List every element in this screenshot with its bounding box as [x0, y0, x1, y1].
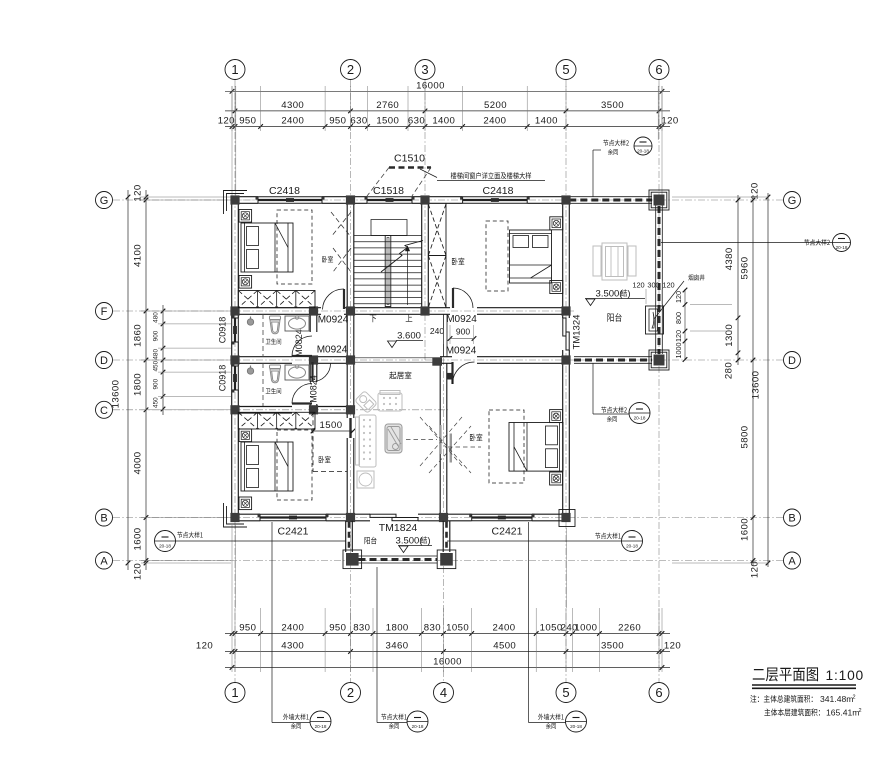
svg-text:120: 120 [662, 281, 674, 290]
callout detail1 left [155, 531, 347, 552]
vent shaft [428, 203, 446, 307]
door M0924 bedroom NE [453, 288, 473, 308]
svg-text:6: 6 [655, 685, 662, 700]
svg-text:4500: 4500 [493, 641, 516, 652]
wall grid4 [440, 363, 447, 514]
svg-text:20-18: 20-18 [836, 245, 848, 250]
svg-text:900: 900 [153, 330, 160, 341]
balcony east railing [656, 203, 663, 354]
grid bubble A left [96, 552, 113, 569]
svg-text:): ) [627, 289, 630, 300]
label M0824 a [294, 329, 304, 357]
svg-text:800: 800 [674, 312, 683, 324]
grid bubble 4 bottom [434, 683, 454, 703]
label M0924 c [446, 314, 477, 325]
label balcony S [365, 537, 377, 544]
label bedroom NW [322, 256, 333, 263]
label C2418 left [269, 185, 300, 197]
area notes [750, 694, 861, 718]
label M0924 b [317, 345, 348, 356]
grid bubble F left [96, 303, 113, 320]
svg-text:F: F [101, 306, 108, 318]
grid bubble G left [96, 192, 113, 209]
svg-text:4100: 4100 [133, 244, 144, 267]
label 900 dim [456, 327, 470, 337]
svg-text:20-18: 20-18 [570, 724, 582, 729]
svg-text:M0824: M0824 [294, 329, 304, 357]
flue shaft [646, 306, 664, 334]
window C0918 lower [231, 364, 238, 393]
svg-text:480: 480 [153, 312, 160, 323]
svg-text:1800: 1800 [386, 623, 409, 634]
svg-text:1: 1 [231, 62, 238, 77]
bed SE [509, 422, 563, 471]
svg-text:120: 120 [661, 116, 678, 127]
svg-text:830: 830 [424, 623, 441, 634]
dashed ceiling cross SE [406, 417, 481, 473]
side table NE b [550, 281, 563, 294]
stair label up [406, 314, 413, 322]
svg-text:120: 120 [133, 563, 144, 580]
svg-text:5200: 5200 [484, 100, 507, 111]
svg-text:341.48m: 341.48m [820, 694, 853, 704]
wall grid2 [347, 203, 354, 514]
svg-text:D: D [788, 355, 796, 367]
grid line 4 [443, 358, 445, 682]
svg-text:1050: 1050 [540, 623, 563, 634]
closet hatch NW [238, 291, 315, 308]
window C2418 right [460, 196, 530, 203]
svg-text:20-18: 20-18 [626, 544, 638, 549]
side table SE a [550, 410, 563, 423]
wall grid1 [232, 197, 239, 521]
closet SW dashed [311, 412, 356, 471]
svg-text:C1510: C1510 [394, 153, 425, 165]
grid bubble D right [784, 352, 801, 369]
side table NW a [239, 210, 252, 223]
svg-text:20-18: 20-18 [637, 149, 649, 154]
svg-text:C2418: C2418 [269, 185, 300, 197]
svg-text:M0924: M0924 [446, 346, 477, 357]
wardrobe dashed NW [277, 210, 312, 284]
svg-text:950: 950 [329, 623, 346, 634]
side table SE b [550, 472, 563, 485]
svg-text:4300: 4300 [281, 641, 304, 652]
svg-text:950: 950 [239, 116, 256, 127]
svg-text:3500: 3500 [601, 100, 624, 111]
svg-text:240: 240 [430, 326, 444, 336]
svg-text:): ) [427, 536, 430, 547]
wall D bedroom [440, 357, 563, 364]
callout wall detail bottom left [272, 522, 331, 732]
door M0824 bath upper [292, 336, 312, 356]
svg-text:C2421: C2421 [278, 526, 309, 538]
bathroom east wall [310, 314, 317, 406]
label bedroom SE [470, 434, 482, 442]
grid line 6 [658, 80, 660, 682]
dashed ceiling cross NW [331, 212, 351, 272]
svg-text:16000: 16000 [416, 80, 445, 91]
label C0918 upper [218, 317, 228, 344]
grid bubble G right [784, 192, 801, 209]
svg-text:A: A [100, 555, 108, 567]
dim 900 line [444, 325, 477, 344]
bed NE [510, 230, 552, 283]
svg-text:3: 3 [421, 62, 428, 77]
grid line C [113, 409, 448, 411]
wall grid3 [422, 203, 429, 307]
svg-text:2: 2 [859, 708, 862, 714]
label M0924 a [318, 315, 349, 326]
svg-text:C0918: C0918 [218, 317, 228, 344]
grid line 3 [424, 80, 426, 362]
stairs [354, 220, 423, 307]
svg-text:1300: 1300 [724, 324, 735, 347]
grid4 partition F-D [444, 314, 447, 356]
wall B [232, 514, 570, 521]
svg-text:TM1324: TM1324 [572, 315, 583, 350]
grid line 1 [234, 80, 236, 682]
svg-text:C: C [100, 405, 108, 417]
bedroom SW door leaf [349, 418, 351, 438]
svg-text:2400: 2400 [493, 623, 516, 634]
column D4 [432, 357, 442, 365]
window C2421 right [469, 514, 534, 521]
corner wrap NW [224, 191, 248, 215]
svg-text:B: B [788, 512, 795, 524]
grid bubble 3 top [415, 60, 435, 80]
svg-text:3500: 3500 [601, 641, 624, 652]
wardrobe dashed SW [277, 430, 312, 500]
balcony table set [593, 243, 636, 280]
svg-text:D: D [100, 355, 108, 367]
grid bubble B left [96, 509, 113, 526]
callout wall detail bottom right [529, 522, 587, 732]
wall G [232, 197, 570, 204]
svg-text:120: 120 [674, 291, 683, 303]
label flue [688, 274, 704, 280]
svg-text:6: 6 [655, 62, 662, 77]
svg-text:120: 120 [196, 641, 213, 652]
svg-text:120: 120 [218, 116, 235, 127]
label living room [389, 371, 411, 379]
svg-text:5: 5 [562, 62, 569, 77]
svg-text:900: 900 [456, 327, 470, 337]
svg-text:C2421: C2421 [492, 526, 523, 538]
svg-text:2400: 2400 [281, 116, 304, 127]
label bathroom lower [266, 388, 281, 394]
svg-text:4000: 4000 [133, 452, 144, 475]
grid line A [113, 560, 783, 562]
label M0924 d [446, 346, 477, 357]
svg-text:5960: 5960 [740, 257, 751, 280]
stair south wall [354, 308, 422, 315]
svg-text:M0824: M0824 [309, 375, 319, 403]
svg-text:13600: 13600 [751, 371, 762, 400]
upper window C1510 note [367, 153, 437, 197]
grid line G [113, 199, 783, 201]
svg-text:2: 2 [347, 62, 354, 77]
svg-text:M0924: M0924 [318, 315, 349, 326]
svg-text:M0924: M0924 [317, 345, 348, 356]
hall-living edge [354, 358, 440, 362]
svg-text:2400: 2400 [281, 623, 304, 634]
svg-text:1400: 1400 [535, 116, 558, 127]
svg-text:C2418: C2418 [483, 185, 514, 197]
grid line 2 [350, 80, 352, 682]
svg-text:120: 120 [664, 641, 681, 652]
flue dims horizontal [632, 281, 674, 305]
svg-text:165.41m: 165.41m [826, 708, 859, 718]
svg-text:C0918: C0918 [218, 365, 228, 392]
svg-text:1800: 1800 [133, 373, 144, 396]
label C1518 [373, 185, 404, 197]
bathroom lower fixtures [247, 363, 309, 406]
svg-text:1860: 1860 [133, 324, 144, 347]
bottom balcony [343, 521, 456, 569]
wall D bath [238, 357, 347, 364]
side table SW a [239, 429, 252, 442]
bed SW [241, 442, 293, 491]
grid bubble 6 bottom [649, 683, 669, 703]
svg-text:120: 120 [674, 330, 683, 342]
level 3.500 balcony S [396, 536, 432, 553]
svg-text:2: 2 [347, 685, 354, 700]
svg-text:630: 630 [350, 116, 367, 127]
grid bubble 2 top [341, 60, 361, 80]
svg-text:630: 630 [408, 116, 425, 127]
grid bubble 5 top [556, 60, 576, 80]
svg-text:120: 120 [133, 184, 144, 201]
callout detail2 far right [661, 234, 851, 252]
window C0918 upper [231, 316, 238, 345]
flue dims vertical [674, 288, 687, 362]
bottom dimension lines [196, 525, 681, 672]
label C2418 right [483, 185, 514, 197]
svg-text:1500: 1500 [376, 116, 399, 127]
svg-text:950: 950 [239, 623, 256, 634]
grid bubble 2 bottom [341, 683, 361, 703]
svg-text:280: 280 [724, 362, 735, 379]
door TM1824 [370, 514, 418, 521]
side table NE a [550, 217, 563, 230]
svg-text:16000: 16000 [433, 657, 462, 668]
svg-text:5: 5 [562, 685, 569, 700]
svg-text:C1518: C1518 [373, 185, 404, 197]
svg-text:1600: 1600 [133, 528, 144, 551]
callout detail1 right [447, 531, 643, 552]
label 240 dim [430, 326, 444, 336]
svg-text:3.500(: 3.500( [396, 536, 424, 547]
svg-text:3.600: 3.600 [397, 331, 421, 342]
label bedroom NE [452, 258, 464, 266]
svg-text:480: 480 [153, 349, 160, 360]
label TM1324 [572, 315, 583, 350]
window C1518 [365, 196, 415, 203]
svg-text:20-18: 20-18 [412, 724, 424, 729]
stair window note [437, 172, 545, 180]
label C0918 lower [218, 365, 228, 392]
svg-text:450: 450 [153, 397, 160, 408]
svg-text:1000: 1000 [674, 343, 683, 359]
title [752, 667, 864, 688]
svg-text:20-18: 20-18 [159, 544, 171, 549]
window C2421 left [258, 514, 329, 521]
grid bubble 1 top [225, 60, 245, 80]
wall grid5 [563, 197, 570, 521]
svg-text:G: G [788, 195, 797, 207]
bathroom upper fixtures [247, 314, 309, 357]
callout node detail bottom mid [377, 567, 428, 732]
top dimension lines [218, 80, 679, 196]
svg-text:2760: 2760 [376, 100, 399, 111]
svg-text:20-18: 20-18 [634, 416, 646, 421]
svg-text:1:100: 1:100 [826, 668, 865, 683]
svg-text:950: 950 [329, 116, 346, 127]
callout detail2 top [593, 137, 652, 197]
living room furniture [355, 391, 402, 489]
svg-text:2260: 2260 [618, 623, 641, 634]
label C2421 left [278, 526, 309, 538]
callout detail2 right [593, 364, 650, 424]
side table NW b [239, 276, 252, 289]
label bathroom upper [266, 338, 281, 344]
svg-text:3.500(: 3.500( [596, 289, 624, 300]
grid line F [113, 310, 574, 312]
label balcony NE [607, 313, 621, 322]
svg-text:13600: 13600 [111, 380, 122, 409]
closet hatch SW [238, 412, 315, 429]
level 3.500 balcony NE [585, 289, 645, 306]
left dimension lines [111, 184, 233, 580]
svg-text:120: 120 [632, 281, 644, 290]
flue leader [654, 281, 684, 319]
svg-text:300: 300 [647, 281, 659, 290]
svg-text:1400: 1400 [432, 116, 455, 127]
grid line 5 [565, 80, 567, 682]
label M0824 b [309, 375, 319, 403]
svg-text:4380: 4380 [724, 247, 735, 270]
door M0924 bedroom NW [323, 289, 345, 310]
svg-text:M0924: M0924 [446, 314, 477, 325]
svg-text:1500: 1500 [320, 420, 343, 431]
svg-text:1600: 1600 [740, 518, 751, 541]
svg-text:2: 2 [853, 695, 856, 701]
svg-text:450: 450 [153, 360, 160, 371]
svg-text:830: 830 [353, 623, 370, 634]
grid bubble 5 bottom [556, 683, 576, 703]
grid line B [113, 517, 783, 519]
grid bubble 1 bottom [225, 683, 245, 703]
grid bubble 6 top [649, 60, 669, 80]
balcony corner column D6 [649, 350, 669, 370]
svg-text:TM1824: TM1824 [379, 522, 418, 534]
columns [230, 195, 570, 522]
grid bubble D left [96, 352, 113, 369]
wardrobe dashed NE [486, 221, 508, 291]
label bedroom SW [319, 456, 331, 463]
wardrobe dashed SE [489, 410, 524, 483]
svg-text:B: B [100, 512, 107, 524]
svg-text:5800: 5800 [740, 426, 751, 449]
window C2418 left [256, 196, 325, 203]
side table SW b [239, 497, 252, 510]
svg-text:120: 120 [750, 561, 761, 578]
svg-text:2400: 2400 [483, 116, 506, 127]
door M0824 bath lower [292, 384, 312, 404]
right dimension lines [672, 182, 770, 578]
door hall-living [313, 362, 331, 382]
balcony corner column G6 [649, 190, 669, 210]
wall F west [238, 308, 347, 315]
corner wrap SW [224, 503, 248, 527]
svg-text:3460: 3460 [386, 641, 409, 652]
door TM1324 [563, 318, 569, 350]
grid bubble B right [784, 509, 801, 526]
corner wrap SE [559, 510, 575, 527]
svg-text:20-18: 20-18 [315, 724, 327, 729]
svg-text:900: 900 [153, 378, 160, 389]
level 3.600 [388, 331, 424, 348]
balcony north railing [569, 197, 652, 204]
svg-text:4: 4 [440, 685, 447, 700]
door M0924 bedroom SE [447, 362, 475, 384]
wall F east [428, 308, 562, 315]
svg-text:4300: 4300 [281, 100, 304, 111]
grid line D [113, 359, 783, 361]
svg-text:1000: 1000 [574, 623, 597, 634]
grid bubble C left [96, 401, 113, 418]
wall C [238, 407, 347, 414]
svg-text:A: A [788, 555, 796, 567]
balcony south railing [574, 357, 652, 364]
svg-text:G: G [100, 195, 109, 207]
grid bubble A right [784, 552, 801, 569]
bed NW [241, 223, 293, 272]
svg-text:1: 1 [231, 685, 238, 700]
stair label down [370, 315, 377, 323]
label TM1824 [379, 522, 418, 534]
label C2421 right [492, 526, 523, 538]
grid4 niche bars [439, 425, 452, 463]
svg-text:1050: 1050 [446, 623, 469, 634]
